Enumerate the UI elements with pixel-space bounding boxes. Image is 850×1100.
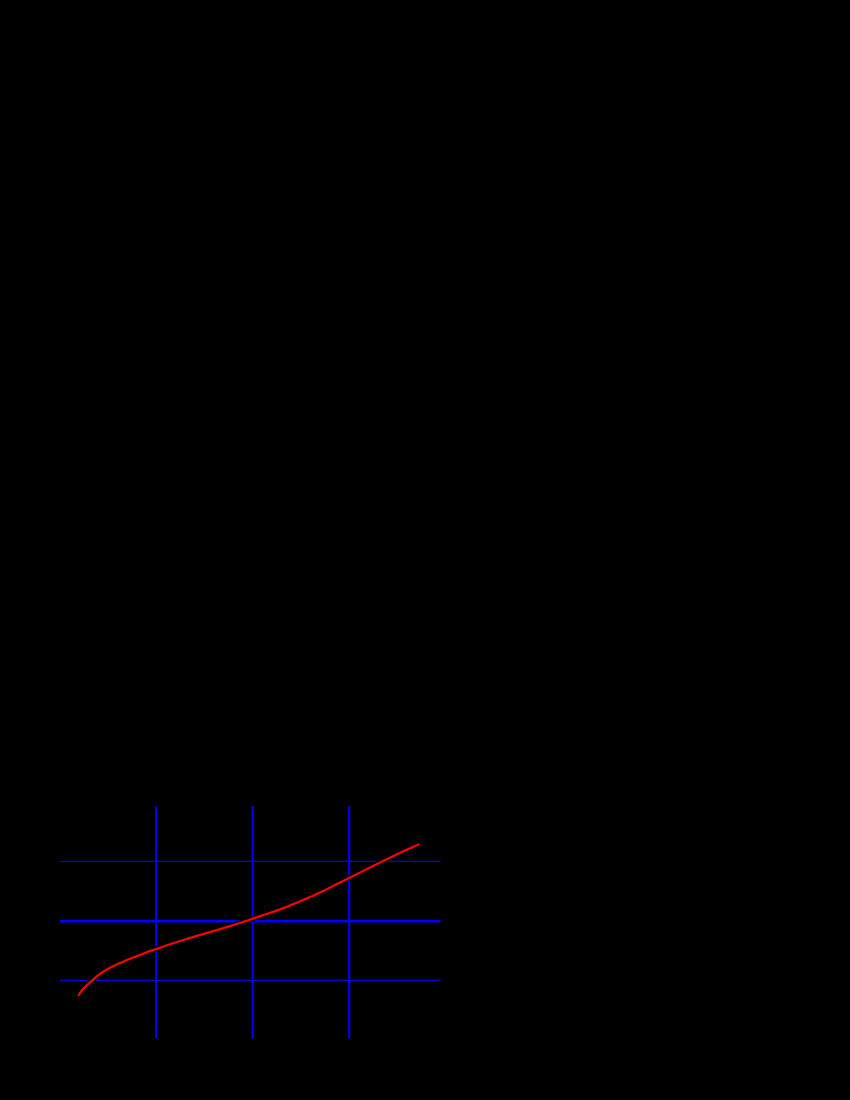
red function curve [79, 844, 419, 995]
grid horizontal line bottom [60, 979, 441, 981]
grid vertical line middle [252, 807, 254, 1039]
black outline halo of red curve (cuts grid lines at crossings) [79, 844, 419, 995]
grid horizontal line top [60, 860, 441, 862]
grid vertical line left [155, 807, 157, 1039]
grid vertical line right [348, 807, 350, 1039]
grid horizontal line middle (thick axis) [60, 920, 441, 923]
